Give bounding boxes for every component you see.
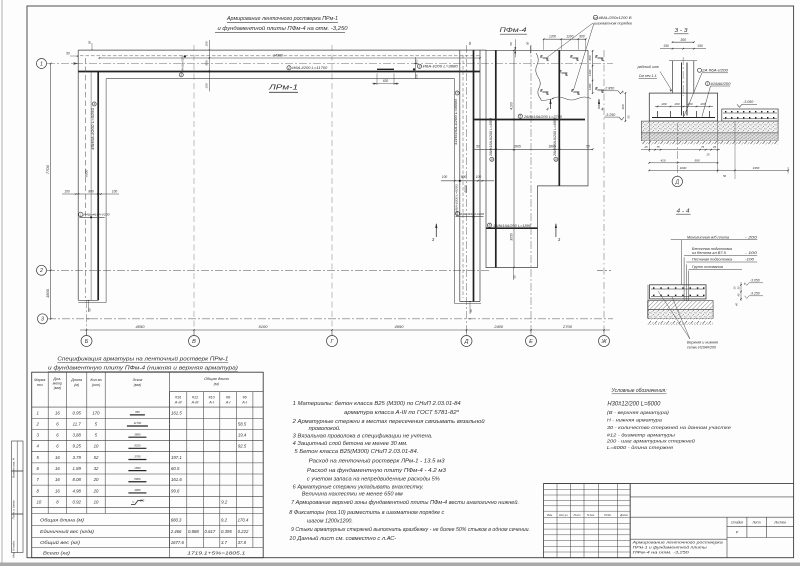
svg-text:Расход на фундаментную плиту П: Расход на фундаментную плиту ПФм-4 - 4.2… bbox=[307, 468, 446, 474]
svg-text:630: 630 bbox=[383, 79, 389, 83]
section 4-4 small dim chain bbox=[740, 282, 742, 301]
svg-text:37.8: 37.8 bbox=[238, 540, 247, 545]
left strip rebar dashed bbox=[84, 58, 86, 298]
svg-text:0.92: 0.92 bbox=[73, 499, 82, 504]
svg-text:4 - 4: 4 - 4 bbox=[677, 208, 690, 214]
section 4 marker left bbox=[550, 99, 552, 109]
axis G line bbox=[331, 45, 333, 336]
svg-text:проволокой.: проволокой. bbox=[309, 425, 341, 432]
svg-text:16: 16 bbox=[55, 455, 60, 460]
top strip outline bbox=[78, 49, 486, 51]
svg-text:1 Материалы: бетон класса В2: 1 Материалы: бетон класса В25 (М300) по … bbox=[293, 401, 461, 407]
break wavy line horizontal bbox=[552, 97, 591, 100]
svg-text:14960: 14960 bbox=[273, 53, 283, 57]
svg-text:Армирование ленточного роствер: Армирование ленточного ростверка ПРм-1 bbox=[226, 16, 338, 22]
svg-text:20: 20 bbox=[93, 488, 99, 493]
svg-text:25: 25 bbox=[643, 145, 648, 149]
svg-text:#8АL/200х1200 В: #8АL/200х1200 В bbox=[599, 16, 633, 20]
svg-text:Расход на ленточный ростверк Л: Расход на ленточный ростверк ЛРм-1 - 13.… bbox=[309, 458, 445, 465]
section 3-3 column bbox=[672, 61, 674, 93]
svg-text:0.617: 0.617 bbox=[205, 529, 216, 534]
section 3-3 sand band bbox=[641, 133, 778, 141]
svg-text:2400: 2400 bbox=[493, 324, 504, 329]
svg-text:1719.1+5%=1805.1: 1719.1+5%=1805.1 bbox=[187, 550, 246, 555]
svg-text:6 Арматурные стержни укладыва: 6 Арматурные стержни укладывать внахлест… bbox=[293, 485, 424, 491]
svg-text:ПФм-4 на отм. -3,250: ПФм-4 на отм. -3,250 bbox=[633, 550, 690, 555]
svg-text:680.3: 680.3 bbox=[171, 517, 182, 522]
svg-text:2: 2 bbox=[179, 73, 182, 77]
svg-text:Условные обозначения:: Условные обозначения: bbox=[612, 388, 668, 394]
axis 2 line bbox=[47, 269, 489, 271]
axis E line bbox=[530, 45, 532, 336]
svg-text:50: 50 bbox=[88, 41, 92, 45]
svg-text:8080: 8080 bbox=[134, 477, 141, 481]
section 4-4 left edge bbox=[647, 285, 649, 319]
svg-text:3.79: 3.79 bbox=[73, 455, 82, 460]
svg-text:3 Вязальная проволока в специ: 3 Вязальная проволока в спецификации не … bbox=[293, 433, 433, 439]
svg-text:19,4: 19,4 bbox=[238, 433, 247, 438]
svg-text:Инв. N подл.: Инв. N подл. bbox=[12, 540, 16, 558]
svg-text:6000: 6000 bbox=[464, 185, 468, 192]
svg-text:1950: 1950 bbox=[753, 166, 760, 170]
svg-text:50: 50 bbox=[88, 308, 92, 312]
axis 3 line bbox=[48, 318, 613, 320]
svg-text:3: 3 bbox=[419, 65, 421, 69]
svg-text:Изм.: Изм. bbox=[547, 513, 553, 517]
section 3-3 footing bottom rebar bbox=[652, 117, 715, 119]
svg-text:Монолитная ж/б плита: Монолитная ж/б плита bbox=[687, 235, 729, 239]
svg-text:1: 1 bbox=[40, 61, 43, 67]
section 4-4 mesh leaders bbox=[658, 291, 690, 339]
section 3-3 dim 300 bbox=[673, 41, 694, 43]
svg-text:52: 52 bbox=[94, 455, 99, 460]
axis circle B bbox=[81, 336, 92, 347]
svg-text:50: 50 bbox=[468, 42, 472, 46]
rotated labels poz.8 plate bbox=[490, 157, 494, 161]
axis circle Zh bbox=[599, 336, 610, 347]
page bottom shadow bbox=[0, 563, 800, 566]
svg-text:9.2: 9.2 bbox=[221, 517, 228, 522]
svg-text:Единичный вес (кг/м): Единичный вес (кг/м) bbox=[40, 529, 95, 534]
left dimension chain 7700/1800 bbox=[50, 64, 52, 319]
svg-text:6: 6 bbox=[489, 224, 491, 228]
svg-text:Е: Е bbox=[529, 339, 533, 345]
section 3-3 label poz1 #16AII bbox=[706, 82, 710, 86]
svg-text:Всего (кг): Всего (кг) bbox=[43, 550, 71, 555]
svg-text:100: 100 bbox=[205, 83, 209, 88]
svg-text:с учетом запаса на непредвиден: с учетом запаса на непредвиденные расход… bbox=[307, 477, 441, 483]
label poz.6 bbox=[487, 223, 491, 227]
svg-text:Кол.уч.: Кол.уч. bbox=[559, 513, 568, 517]
rotated label poz.7 right strip bbox=[455, 91, 459, 95]
svg-text:рабочий шов: рабочий шов bbox=[637, 65, 659, 69]
svg-text:7 Армирование верхней зоны фу: 7 Армирование верхней зоны фундаментной … bbox=[291, 499, 519, 506]
svg-text:161.6: 161.6 bbox=[171, 477, 182, 482]
svg-text:150: 150 bbox=[697, 44, 703, 48]
svg-text:Н - нижняя арматура: Н - нижняя арматура bbox=[607, 418, 662, 424]
svg-text:10: 10 bbox=[37, 499, 42, 504]
axis B line bbox=[86, 300, 88, 335]
section 3-3 footing bbox=[649, 93, 717, 121]
axis 1 line bbox=[47, 63, 613, 65]
svg-text:1677.6: 1677.6 bbox=[171, 540, 185, 545]
svg-text:4050: 4050 bbox=[136, 324, 146, 329]
svg-text:(В - верхняя арматура): (В - верхняя арматура) bbox=[607, 410, 669, 416]
left strip outline bbox=[77, 50, 79, 300]
label at axis V vertical bbox=[184, 55, 186, 57]
label poz.1 left strip horizontal bbox=[79, 212, 83, 216]
svg-text:(м): (м) bbox=[74, 383, 80, 387]
svg-text:32: 32 bbox=[94, 466, 99, 471]
svg-text:Дата: Дата bbox=[619, 513, 628, 517]
svg-text:2700: 2700 bbox=[562, 324, 573, 329]
section 3-3 dim 150/150 bbox=[660, 48, 706, 50]
left strip bottom 50 dim bbox=[88, 300, 90, 312]
axis D line bbox=[466, 45, 468, 336]
plate rebar poz.8 vertical right (thick) bbox=[558, 50, 560, 186]
svg-text:16И#16А/200 L=1890: 16И#16А/200 L=1890 bbox=[493, 224, 531, 228]
svg-text:100: 100 bbox=[205, 41, 209, 46]
svg-text:100: 100 bbox=[476, 175, 482, 179]
svg-text:Взамен инв. N: Взамен инв. N bbox=[12, 457, 16, 478]
svg-text:#10: #10 bbox=[208, 396, 215, 400]
section 4-4 slab bbox=[650, 285, 707, 299]
section 4 marker right bbox=[598, 99, 600, 109]
section 3 marker left bbox=[435, 224, 437, 237]
dim 14960 top strip bbox=[99, 57, 480, 59]
svg-text:Ж: Ж bbox=[600, 339, 607, 345]
axis circle 1 bbox=[37, 59, 47, 69]
svg-text:Марка: Марка bbox=[34, 378, 45, 382]
label poz.2 on axis 1 bbox=[287, 66, 291, 70]
svg-text:100: 100 bbox=[415, 74, 419, 79]
svg-text:ЛРм-1: ЛРм-1 bbox=[268, 85, 299, 92]
svg-text:А-III: А-III bbox=[174, 400, 182, 404]
svg-text:6000: 6000 bbox=[85, 170, 89, 177]
svg-text:И4Шп#16А-I/200: И4Шп#16А-I/200 bbox=[84, 213, 110, 217]
bottom dimension chain bbox=[80, 329, 610, 331]
top strip upper rebar dashed bbox=[80, 55, 480, 57]
svg-text:9.2: 9.2 bbox=[221, 499, 228, 504]
svg-text:100: 100 bbox=[64, 190, 70, 194]
svg-text:50: 50 bbox=[476, 145, 480, 149]
svg-text:800: 800 bbox=[88, 190, 94, 194]
svg-text:Д: Д bbox=[464, 339, 469, 345]
axis circle V bbox=[189, 336, 200, 347]
svg-text:(мм): (мм) bbox=[134, 383, 142, 387]
left strip rebar poz.4 (thick) bbox=[97, 72, 99, 301]
label poz.10 bbox=[593, 15, 597, 19]
svg-text:#12: #12 bbox=[192, 396, 198, 400]
svg-text:50: 50 bbox=[627, 115, 631, 119]
section 3-3 bottom dims bbox=[641, 149, 720, 151]
svg-text:75: 75 bbox=[656, 145, 660, 149]
svg-text:50: 50 bbox=[723, 174, 727, 178]
svg-text:2.466: 2.466 bbox=[170, 529, 182, 534]
axis circle D2 bbox=[461, 336, 472, 347]
svg-text:Грунт основания: Грунт основания bbox=[692, 265, 723, 269]
svg-text:0.395: 0.395 bbox=[221, 529, 232, 534]
svg-text:3790: 3790 bbox=[134, 455, 141, 459]
svg-text:Лист: Лист bbox=[751, 521, 761, 525]
svg-text:75: 75 bbox=[701, 145, 705, 149]
section 4-4 sand band bbox=[648, 310, 713, 319]
svg-text:30 - количество стержней на д: 30 - количество стержней на данном участ… bbox=[607, 424, 731, 431]
axis 1 arrowhead bbox=[74, 62, 79, 64]
plate right dim chain 800/1200/1200 bbox=[592, 51, 594, 93]
svg-text:7700: 7700 bbox=[45, 164, 50, 174]
svg-text:4 Защитный слой бетона не мен: 4 Защитный слой бетона не менее 30 мм. bbox=[293, 440, 408, 447]
svg-text:Подп.: Подп. bbox=[604, 513, 612, 517]
svg-text:4100: 4100 bbox=[509, 102, 513, 110]
svg-text:(шт): (шт) bbox=[92, 383, 101, 387]
svg-text:метр: метр bbox=[53, 382, 63, 386]
section 3-3 right slab bbox=[722, 109, 778, 121]
svg-text:197.1: 197.1 bbox=[171, 455, 182, 460]
svg-text:Листов: Листов bbox=[773, 521, 786, 525]
svg-text:9250: 9250 bbox=[134, 444, 141, 448]
svg-text:58.5: 58.5 bbox=[238, 421, 247, 426]
left strip inner thin rebar line bbox=[90, 72, 92, 301]
plate rebar poz.8 vertical left (thick) bbox=[495, 50, 497, 267]
right strip rebar dashed bbox=[462, 55, 464, 298]
mini dim chain right of 630 bbox=[413, 68, 415, 70]
svg-text:и фундаментную плиту ПФм-4 (ни: и фундаментную плиту ПФм-4 (нижняя и вер… bbox=[48, 366, 238, 372]
svg-text:800: 800 bbox=[588, 55, 592, 60]
svg-text:(м): (м) bbox=[214, 381, 220, 386]
svg-text:2А #6А-I/200: 2А #6А-I/200 bbox=[701, 69, 728, 73]
svg-text:50: 50 bbox=[586, 145, 590, 149]
svg-text:и фундаментной плиты ПФм-4 на: и фундаментной плиты ПФм-4 на отм. -3,25… bbox=[218, 25, 348, 32]
svg-text:100: 100 bbox=[112, 190, 118, 194]
svg-text:Общая длина (м): Общая длина (м) bbox=[40, 517, 85, 522]
svg-text:800: 800 bbox=[415, 59, 419, 64]
lap bar 630 over strip edge bbox=[377, 68, 394, 70]
svg-text:3.7: 3.7 bbox=[221, 540, 228, 545]
title block top line bbox=[544, 483, 794, 485]
svg-text:800: 800 bbox=[461, 175, 467, 179]
svg-text:50: 50 bbox=[469, 309, 473, 313]
section 3-3 dim 200x4 bbox=[655, 106, 713, 108]
svg-text:0.888: 0.888 bbox=[188, 529, 199, 534]
svg-text:200 - шаг арматурных стержней: 200 - шаг арматурных стержней bbox=[606, 438, 696, 445]
svg-text:А-I: А-I bbox=[241, 400, 247, 404]
svg-text:1000: 1000 bbox=[680, 166, 687, 170]
label poz.3 top right bbox=[417, 64, 421, 68]
svg-text:И4Шп#16А-I/200: И4Шп#16А-I/200 bbox=[460, 212, 484, 216]
plate dim 50/1865/1865/50 bbox=[474, 148, 593, 150]
section 3-3 axis D circle bbox=[676, 123, 678, 176]
svg-text:-3.250: -3.250 bbox=[605, 113, 615, 117]
svg-text:800: 800 bbox=[205, 60, 209, 65]
svg-text:4980: 4980 bbox=[134, 488, 141, 492]
svg-text:Д: Д bbox=[675, 179, 680, 185]
axis circle E bbox=[526, 336, 537, 347]
svg-text:ПФм-4: ПФм-4 bbox=[500, 27, 527, 34]
svg-text:250: 250 bbox=[139, 498, 145, 502]
svg-text:А-III: А-III bbox=[191, 400, 199, 404]
svg-text:150: 150 bbox=[663, 44, 669, 48]
svg-text:0.222: 0.222 bbox=[238, 529, 249, 534]
svg-text:9 Стыки арматурных стержней в: 9 Стыки арматурных стержней выполнить вр… bbox=[291, 526, 530, 533]
svg-text:3,88: 3,88 bbox=[73, 433, 82, 438]
svg-text:8.08: 8.08 bbox=[73, 477, 82, 482]
svg-text:Общий вес (кг): Общий вес (кг) bbox=[40, 540, 81, 545]
svg-text:В: В bbox=[192, 339, 196, 345]
svg-text:2 Арматурные стержни в местах: 2 Арматурные стержни в местах пересечени… bbox=[292, 418, 485, 425]
small dim 630 under top strip bbox=[376, 74, 378, 86]
svg-text:45И6А-I/200 L=9250: 45И6А-I/200 L=9250 bbox=[91, 108, 95, 150]
svg-text:200: 200 bbox=[660, 102, 666, 106]
svg-text:И6А-I/200 L=11700: И6А-I/200 L=11700 bbox=[292, 66, 327, 70]
svg-text:арматура класса А-III по ГОС: арматура класса А-III по ГОСТ 5781-82* bbox=[344, 410, 460, 416]
svg-text:сетки И10А#/200: сетки И10А#/200 bbox=[687, 346, 716, 350]
right strip rebar poz.7 (thick) bbox=[473, 50, 475, 301]
svg-text:16: 16 bbox=[55, 477, 60, 482]
svg-text:Верхняя и нижняя: Верхняя и нижняя bbox=[687, 341, 718, 345]
svg-text:Н30#12/200 L=6000: Н30#12/200 L=6000 bbox=[607, 401, 661, 407]
section 4-4 soil scribble band bbox=[649, 318, 713, 324]
section 4-4 hatch band bbox=[648, 301, 713, 310]
svg-text:800: 800 bbox=[579, 34, 585, 38]
inner offset contour bbox=[106, 78, 455, 80]
plate rebar poz.5 horizontal (thick) bbox=[474, 119, 586, 121]
break wavy line vertical bbox=[536, 53, 554, 100]
svg-text:-3.050: -3.050 bbox=[750, 279, 760, 283]
svg-text:950: 950 bbox=[135, 410, 140, 414]
svg-text:Длина: Длина bbox=[70, 378, 82, 382]
page left edge line bbox=[1, 0, 3, 566]
svg-text:А-I: А-I bbox=[225, 400, 231, 404]
vertical dim at V axis 100/800/100 bbox=[208, 40, 210, 92]
svg-text:50: 50 bbox=[513, 275, 517, 279]
section 3-3 left dim 400/50 bbox=[624, 93, 626, 121]
label poz.10 leader lines bbox=[548, 23, 594, 57]
svg-text:шахматном порядке: шахматном порядке bbox=[594, 22, 632, 26]
svg-text:16: 16 bbox=[55, 410, 60, 415]
svg-text:4950: 4950 bbox=[395, 324, 405, 329]
svg-text:99.6: 99.6 bbox=[171, 488, 180, 493]
plate vertical dim 4100/3050 bbox=[513, 50, 515, 267]
svg-text:L=6000 - длина стержня: L=6000 - длина стержня bbox=[607, 445, 674, 451]
plate rebar poz.6 horizontal (thick) bbox=[486, 227, 538, 229]
right strip bottom 50 dim bbox=[469, 302, 471, 315]
svg-text:2И#16А-I/200: 2И#16А-I/200 bbox=[181, 55, 185, 73]
svg-text:8 Фиксаторы (поз.10) размес: 8 Фиксаторы (поз.10) разместить в шахмат… bbox=[289, 510, 445, 516]
svg-text:Спецификация арматуры на ленто: Спецификация арматуры на ленточный роств… bbox=[57, 355, 228, 362]
section 3-3 soil scribble bbox=[641, 141, 778, 146]
section 3-3 column rebar bbox=[681, 63, 683, 116]
svg-text:Диа-: Диа- bbox=[52, 377, 62, 381]
svg-text:1.89: 1.89 bbox=[73, 466, 82, 471]
svg-text:(мм): (мм) bbox=[54, 386, 62, 390]
svg-text:20И#16А-II/200 L=4980: 20И#16А-II/200 L=4980 bbox=[553, 118, 557, 157]
svg-text:из бетона кл.В7.5: из бетона кл.В7.5 bbox=[692, 251, 727, 255]
top strip rebar bar poz.2 (thick) bbox=[78, 71, 480, 73]
svg-text:1200: 1200 bbox=[549, 34, 556, 38]
left stamp box: Podp i data bbox=[12, 471, 24, 514]
svg-text:420: 420 bbox=[660, 158, 665, 162]
label poz.5 bbox=[518, 114, 522, 118]
svg-text:N док.: N док. bbox=[587, 513, 595, 517]
axis Zh line bbox=[603, 50, 605, 336]
svg-text:11700: 11700 bbox=[134, 421, 142, 425]
svg-text:2: 2 bbox=[39, 268, 43, 274]
spec table grid bbox=[32, 372, 264, 558]
svg-text:2: 2 bbox=[287, 66, 290, 70]
svg-text:#16АII/200: #16АII/200 bbox=[711, 82, 731, 86]
svg-text:#12 - диаметр арматуры: #12 - диаметр арматуры bbox=[607, 432, 676, 438]
svg-text:0.95: 0.95 bbox=[73, 410, 82, 415]
svg-text:Подп. и дата: Подп. и дата bbox=[12, 500, 16, 519]
svg-text:4.98: 4.98 bbox=[73, 488, 82, 493]
svg-text:А-I: А-I bbox=[208, 400, 214, 404]
svg-text:3 - 3: 3 - 3 bbox=[675, 28, 688, 34]
svg-text:Величина нахлестки не менее 65: Величина нахлестки не менее 650 мм bbox=[302, 491, 404, 497]
svg-text:170: 170 bbox=[92, 410, 100, 415]
axis circle 3 bbox=[38, 314, 48, 324]
revision table bbox=[544, 484, 631, 558]
axis circle G bbox=[327, 336, 338, 347]
svg-text:5: 5 bbox=[519, 115, 521, 119]
svg-text:Лист: Лист bbox=[572, 513, 581, 517]
svg-text:11.7: 11.7 bbox=[73, 421, 82, 426]
svg-text:9.25: 9.25 bbox=[73, 444, 82, 449]
svg-text:100: 100 bbox=[442, 175, 448, 179]
svg-text:50: 50 bbox=[509, 42, 513, 46]
svg-text:шагом 1200х1200.: шагом 1200х1200. bbox=[307, 519, 353, 525]
svg-text:20И#16А-II/200 L=4980: 20И#16А-II/200 L=4980 bbox=[489, 118, 493, 157]
svg-text:-2.850: -2.850 bbox=[604, 87, 614, 91]
section 4-4 leader verticals bbox=[680, 240, 682, 285]
svg-text:5 Бетон класса В25(М300) СНи: 5 Бетон класса В25(М300) СНиП 2.03.01-84… bbox=[294, 449, 418, 455]
right strip outline bbox=[459, 50, 461, 301]
svg-text:16: 16 bbox=[55, 488, 60, 493]
svg-text:25: 25 bbox=[712, 145, 717, 149]
plate top dims 1200/1200/800 bbox=[544, 38, 586, 40]
svg-text:50: 50 bbox=[526, 42, 530, 46]
svg-text:И6А-I/200 L=3880: И6А-I/200 L=3880 bbox=[423, 65, 458, 69]
svg-text:10 Данный лист см. совместно: 10 Данный лист см. совместно с л.АС- bbox=[289, 535, 396, 542]
svg-text:1800: 1800 bbox=[45, 288, 50, 298]
svg-text:Песчаная подготовка: Песчаная подготовка bbox=[692, 258, 732, 262]
svg-text:16: 16 bbox=[55, 466, 60, 471]
svg-text:50: 50 bbox=[66, 51, 70, 55]
axis V line bbox=[193, 45, 195, 336]
section 3-3 rabochiy shov leader bbox=[660, 72, 672, 91]
svg-text:1200: 1200 bbox=[588, 83, 592, 90]
svg-text:Эскиз: Эскиз bbox=[132, 378, 142, 382]
svg-text:25: 25 bbox=[705, 153, 710, 157]
svg-text:92.5: 92.5 bbox=[238, 444, 247, 449]
section 3-3 podgotovka stipple band bbox=[641, 121, 778, 133]
svg-text:20: 20 bbox=[93, 477, 99, 482]
title block right part lines bbox=[629, 484, 631, 558]
svg-text:170.4: 170.4 bbox=[238, 517, 249, 522]
svg-text:- 200: - 200 bbox=[745, 235, 758, 239]
svg-text:1865: 1865 bbox=[513, 145, 521, 149]
axis circle 2 bbox=[37, 265, 47, 275]
svg-text:580: 580 bbox=[694, 158, 699, 162]
svg-text:1200: 1200 bbox=[566, 34, 573, 38]
svg-text:-3.050: -3.050 bbox=[743, 100, 753, 104]
svg-text:поз: поз bbox=[37, 383, 43, 387]
svg-text:Стадия: Стадия bbox=[731, 521, 743, 525]
svg-text:Кол-во: Кол-во bbox=[90, 378, 101, 382]
axis 2 crossing dash at Zh bbox=[597, 269, 611, 271]
section 3 marker right bbox=[555, 224, 557, 237]
plate narrow part dim 50 bbox=[513, 268, 515, 281]
